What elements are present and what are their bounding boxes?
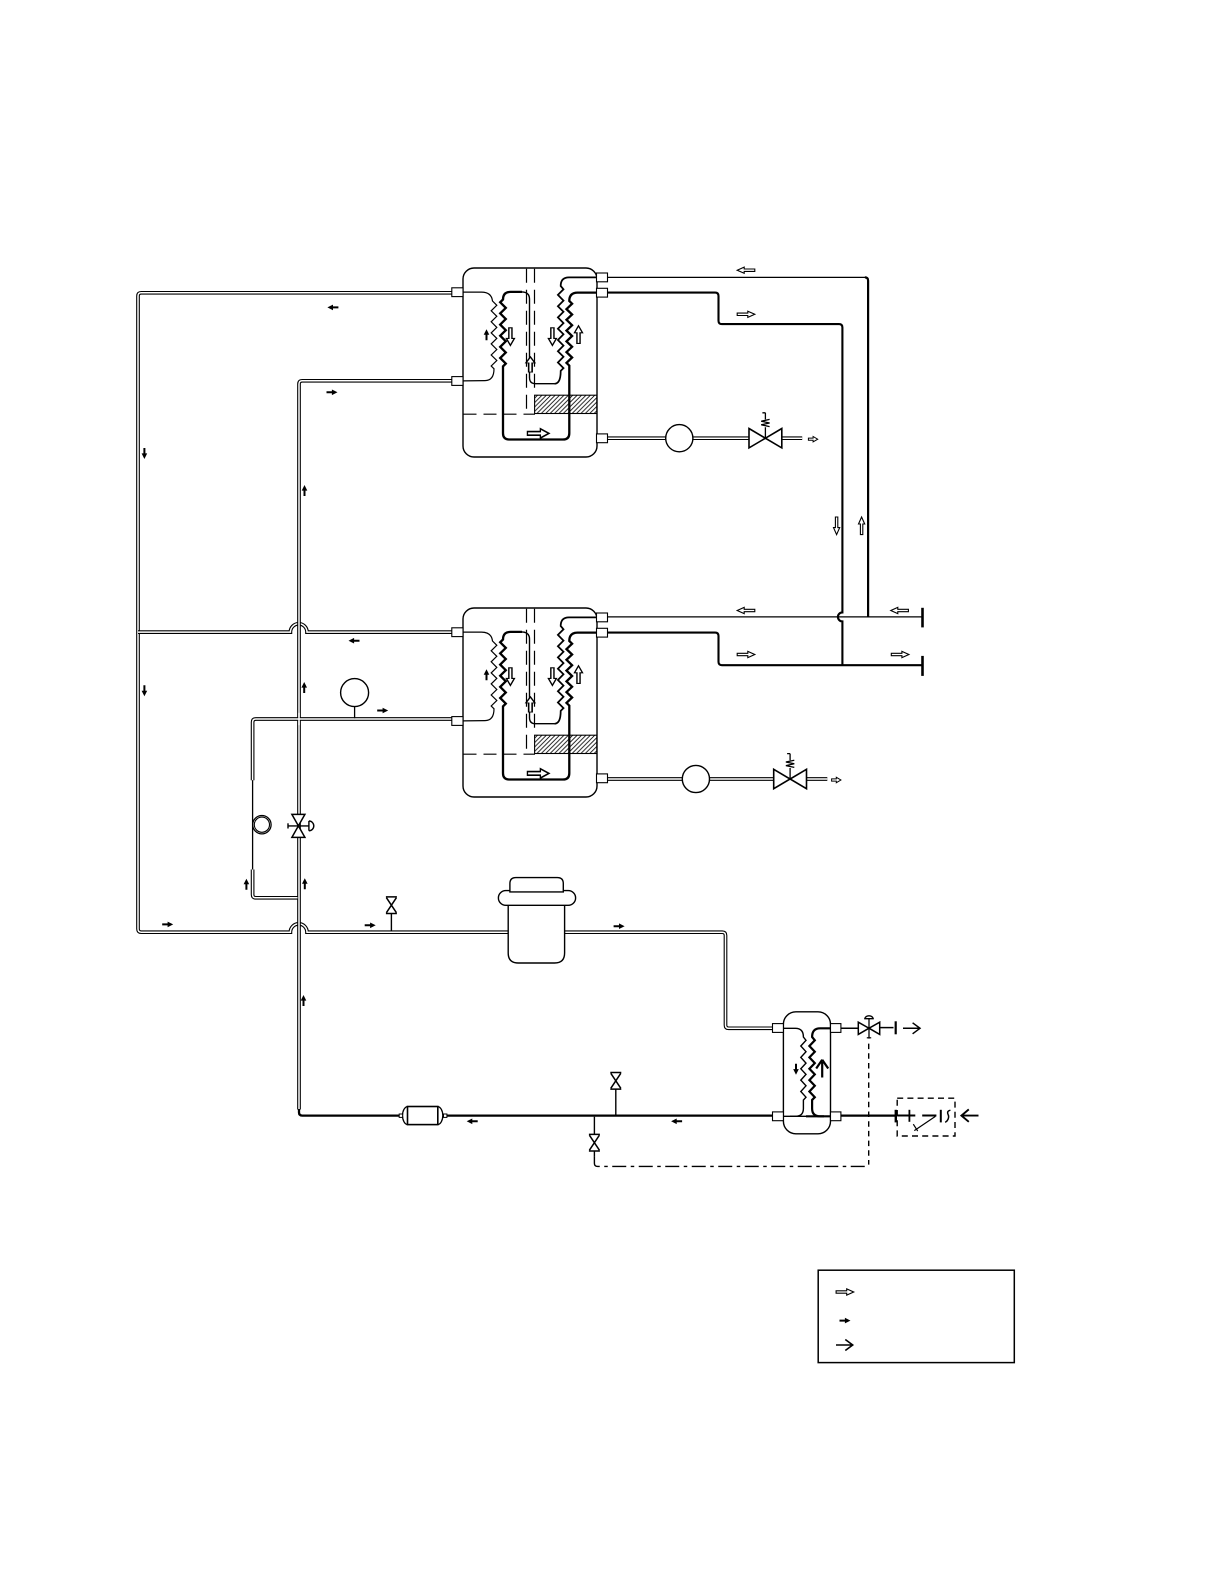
wire: hx1 top return line horizontal [608,276,867,278]
expansion valve dashed enclosure [897,1098,955,1136]
stub left 2 [452,717,463,726]
hollow right arrow hx2 supply [737,651,755,657]
solid left arrow suction hx1 [327,305,338,311]
solid right arrow suction bottom 1 [162,922,173,928]
stub right 3 [597,434,608,443]
subcooler heat exchanger shell [783,1012,830,1134]
solid down arrow left drop upper [142,448,148,459]
expansion valve adjustment arrow [913,1116,935,1131]
wire: hx1 return right header vertical (thick) [865,277,868,617]
hollow down arrow right header [834,517,840,535]
liquid level dashed line [464,413,536,415]
solid right arrow suction bottom 2 [365,923,376,929]
solid up arrow riser 3 [302,878,308,889]
relief valve hx2 [774,754,807,789]
pipe: relief valve hx2 outlet [806,777,827,781]
solid left arrow liquid line 2 [671,1119,682,1125]
solid up arrow (water in) [484,669,490,680]
hollow down arrow refrigerant middle [548,668,556,686]
expansion valve internal line [897,1110,915,1122]
compressor/muffler top cap [510,878,563,892]
legend thin arrow [836,1340,853,1351]
pipe: sight glass capillary single line [252,780,254,869]
solid right arrow gauge line [377,708,388,714]
stub right 2 [597,288,608,297]
pipe: heat exchanger 2 bottom outlet to pump [608,777,683,781]
stub right 2 [597,628,608,637]
internal dashed tube wall left [526,609,528,754]
hollow up arrow right header [859,517,865,535]
center dip tube line [522,632,555,724]
refrigerant thick coil (left down, bottom U, right up) [500,292,597,440]
end cap lower water connection [921,656,924,676]
pipe: regulating valve outlet [880,1027,894,1029]
oil separator hatch block [535,735,597,753]
internal dashed tube wall right [534,269,536,395]
refrigerant thick coil (left down, bottom U, right up) [500,632,597,780]
sight glass [253,816,271,834]
pipe: liquid line (thick) from riser corner through filter drier to expansion valve [299,1109,896,1116]
relief valve hx1 [749,413,782,448]
expansion valve inlet bar [895,1110,897,1123]
stub left 1 [452,628,463,637]
end cap upper water connection [921,608,924,628]
hollow arrow after relief valve hx1 [808,437,817,442]
legend solid arrow [840,1318,851,1324]
pipe: suction line from heat exchanger 1 to compressor section [138,293,773,1029]
service valve above liquid line [610,1073,621,1115]
subcooler stub right bottom [831,1112,841,1121]
charging valve below liquid line [589,1117,600,1157]
solid right arrow hx1 lower [327,390,338,396]
solid down arrow left drop lower [142,685,148,696]
pressure regulating valve on riser [288,814,314,837]
thick flow arrow in (liquid) [961,1109,978,1121]
expansion valve outlet bar [940,1110,942,1123]
pipe: relief valve hx1 outlet [782,436,803,440]
compressor/muffler collar ring [498,891,575,906]
solid up arrow riser 1 [302,485,308,496]
solid left arrow liquid line 1 [467,1119,478,1125]
solid up arrow bypass [244,879,250,890]
hollow up arrow center dip tube [526,697,535,712]
left thin water coil [463,632,497,721]
open cross junction at riser and gauge line [298,713,300,725]
pipe: small hx top line to regulating valve [841,1027,858,1029]
heat exchanger tank 1 [452,268,608,457]
heat exchanger tank 2 [452,608,608,797]
hollow left arrow top return line [737,267,755,273]
stub left 1 [452,288,463,297]
subcooler stub left top [773,1024,784,1033]
filter drier body lines [399,1107,447,1125]
pipe: pump to relief valve hx2 [709,777,774,781]
pressure gauge [341,679,369,719]
subcooler bottom internal line thin half [783,1115,808,1117]
legend hollow arrow [836,1289,854,1295]
pipe: bypass lower bend to riser [253,870,298,898]
compressor/muffler vessel body [508,892,564,963]
pipe: liquid/suction riser from heat exchanger 1 lower left stub [299,381,463,1110]
dash-dot capillary line to expansion valve [594,1156,868,1166]
hollow up arrow refrigerant right [574,326,582,344]
subcooler thin coil [783,1028,806,1116]
hollow right arrow bottom U [527,429,548,438]
pipe: branch to heat exchanger 2 upper left stub [138,624,463,632]
solid left arrow hx2 branch [349,638,360,644]
tick bar after regulating valve [895,1021,897,1034]
stub right 3 [597,774,608,783]
subcooler small down arrow [793,1064,799,1075]
hollow left arrow near end cap [891,607,909,613]
hollow up arrow center dip tube [526,357,535,372]
wire: hx1 supply step line to right header [608,293,843,666]
hollow up arrow refrigerant right [574,666,582,684]
subcooler bottom internal line thick half [806,1115,831,1117]
hollow right arrow near lower end cap [891,651,909,657]
filter drier shell [402,1107,442,1125]
back pressure regulating valve [858,1016,879,1039]
left thin water coil [463,292,497,381]
pipe: gauge line to heat exchanger 2 lower left stub [253,719,463,780]
hollow right arrow supply step line [737,311,755,317]
liquid level dashed line [464,753,536,755]
solid right arrow after muffler [614,923,625,929]
subcooler stub left bottom [773,1112,784,1121]
internal dashed tube wall left [526,269,528,414]
subcooler big up arrow [816,1060,828,1078]
hollow down arrow refrigerant left [506,668,514,686]
pipe: heat exchanger 1 bottom outlet to pump [608,436,667,440]
inner right coil [555,277,597,383]
hollow down arrow refrigerant middle [548,328,556,346]
thin flow arrow out (gas) [903,1023,920,1034]
oil separator hatch block [535,395,597,413]
shell outline [463,268,597,457]
internal dashed tube wall right [534,609,536,735]
stub right 1 [597,273,608,282]
hollow left arrow hx2 return [737,607,755,613]
pump hx1 [666,425,693,452]
subcooler thick coil [809,1028,830,1116]
stub right 1 [597,613,608,622]
pump hx2 [682,765,709,792]
hollow arrow after relief valve hx2 [832,777,841,782]
stub left 2 [452,377,463,386]
expansion valve bulb squiggle [945,1110,950,1122]
dashed equalizer line from regulating valve [868,1044,870,1165]
legend box [818,1270,1014,1362]
solid up arrow riser 2 [301,682,307,693]
solid up arrow riser 4 [301,995,307,1006]
shell outline [463,608,597,797]
hollow down arrow refrigerant left [506,328,514,346]
solid up arrow (water in) [484,329,490,340]
center dip tube line [522,292,555,384]
expansion valve dash segment [922,1115,936,1117]
wire: hx2 supply line to end cap [608,633,923,666]
subcooler stub right top [831,1024,841,1033]
inner right coil [555,617,597,723]
hollow right arrow bottom U [527,769,548,778]
service valve on suction run [386,897,397,931]
wire: hx2 top return line to end cap [608,616,923,618]
pipe: pump to relief valve hx1 [693,436,750,440]
